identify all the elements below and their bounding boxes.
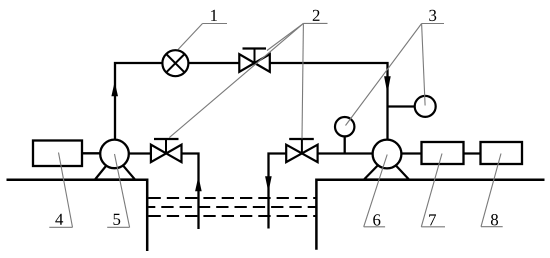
box 4 [33,141,82,167]
wire: valve V3 to pump 6 [316,152,374,154]
wire: box 4 to pump 5 [82,152,100,154]
pump 6 support [364,156,409,180]
wire: box 7 to box 8 [464,152,482,154]
wire: pump 5 to valve V2 [128,152,152,154]
label 6 [373,214,380,225]
water level dashed line 1 [149,197,317,199]
label 8 [491,214,498,225]
label 3 [429,10,436,21]
flow meter FM (item 1) [162,50,188,76]
pump 6 [373,140,402,169]
leader line for label 8 [481,154,503,227]
water level dashed line 3 [149,215,317,217]
wire: valve V2 to left suction dip pipe [180,154,199,230]
label 1 [211,10,217,21]
leader line for label 6 [364,155,388,227]
label 7 [429,214,436,225]
valve V3 (item 2, near pump 6) [286,139,317,162]
wire: pump 6 to box 7 [402,152,422,154]
pressure gauge B (item 3, right) [415,96,436,117]
flow arrow up on suction pipe [195,176,202,191]
label 5 [113,214,120,225]
wire: gauge A stem [344,137,346,154]
valve V1 (item 2, top) [239,49,269,72]
flow arrow up on left riser [111,82,118,97]
box 8 [481,142,523,164]
leader lines for label 2 [169,23,327,138]
label 2 [313,10,320,21]
leader line for label 5 [107,154,129,227]
label 4 [55,214,63,225]
box 7 [422,142,464,164]
wire: top header pipe with left riser and right drop [115,63,388,140]
flow arrow down on discharge pipe [265,176,272,192]
pump 5 support [95,156,135,180]
leader line for label 4 [49,153,72,228]
leader line for label 1 [178,24,227,50]
flow arrow down on right drop [384,76,391,93]
water level dashed line 2 [149,206,317,208]
wire: branch to pressure gauge B [388,105,415,107]
pressure gauge A (item 3, left) [335,117,354,136]
leader line for label 7 [421,154,445,227]
leader lines for label 3 [346,24,445,126]
pump 5 [100,140,129,169]
valve V2 (item 2, near pump 5) [151,139,182,162]
wire: right discharge dip pipe to valve V3 [269,154,288,229]
ground: left platform and sump left wall [7,180,148,251]
ground: right platform and sump right wall [316,180,544,250]
